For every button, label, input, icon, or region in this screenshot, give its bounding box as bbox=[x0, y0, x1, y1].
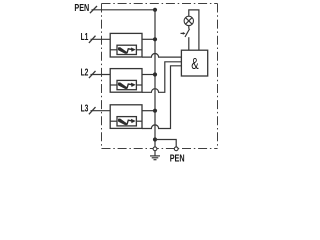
svg-text:L1: L1 bbox=[81, 32, 89, 43]
svg-text:PEN: PEN bbox=[74, 3, 89, 14]
F1 lightning arrow bbox=[118, 48, 135, 54]
wire AND output to lamp branch (left vertical) bbox=[188, 37, 190, 50]
surge arrester F3 outer box bbox=[110, 105, 142, 129]
F2 lightning arrow bbox=[118, 83, 135, 89]
terminal circle: earth bbox=[153, 147, 157, 151]
svg-text:PEN: PEN bbox=[170, 154, 185, 164]
switch S1 contact blade bbox=[185, 29, 190, 37]
wire F2 monitor line with hop over bus, riser to AND gate bbox=[142, 62, 181, 93]
terminal circle: PEN bottom bbox=[174, 147, 178, 151]
wire: vertical PEN bus bbox=[154, 10, 156, 147]
lamp bottom stub bbox=[188, 26, 190, 29]
surge arrester F2 outer box bbox=[110, 69, 142, 93]
wire F2 output to bus bbox=[142, 74, 155, 76]
wire L2 to arrester bbox=[91, 74, 111, 76]
node: bottom PEN junction dot bbox=[153, 137, 157, 141]
ground symbol bbox=[150, 151, 160, 160]
wire PEN top to bus bbox=[92, 9, 156, 11]
F1 inner element leads bbox=[110, 49, 117, 51]
AND gate U1 box bbox=[181, 50, 207, 76]
node: L1/bus junction dot bbox=[153, 37, 157, 41]
wire L3 to arrester bbox=[91, 110, 111, 112]
wire L1 to arrester bbox=[91, 38, 111, 40]
spark gap element F1 inner box bbox=[117, 45, 136, 54]
switch actuator arrow bbox=[181, 32, 184, 34]
terminal slash L3 bbox=[89, 107, 96, 114]
spark gap element F2 inner box bbox=[117, 80, 136, 89]
wire F1 output to bus bbox=[142, 38, 155, 40]
enclosure border (dash-dot device outline) bbox=[102, 4, 218, 149]
indicator lamp H1 (circle with X) bbox=[184, 16, 193, 25]
node: PEN/bus junction dot bbox=[153, 8, 157, 12]
F2 inner element leads bbox=[110, 84, 117, 86]
svg-text:L3: L3 bbox=[81, 104, 89, 115]
F3 lightning arrow bbox=[118, 119, 135, 125]
surge arrester F1 outer box bbox=[110, 33, 142, 57]
terminal slash L1 bbox=[89, 36, 96, 43]
wire F3 output to bus bbox=[142, 110, 155, 112]
terminal slash L2 bbox=[89, 71, 96, 78]
svg-text:L2: L2 bbox=[81, 67, 89, 78]
spark gap element F3 inner box bbox=[117, 117, 136, 126]
svg-text:&: & bbox=[191, 56, 199, 73]
node: L2/bus junction dot bbox=[153, 72, 157, 76]
F3 inner element leads bbox=[110, 120, 117, 122]
wire lamp loop: top bar and right leg bbox=[189, 10, 199, 50]
wire to bottom PEN terminal bbox=[155, 140, 176, 147]
wire F3 monitor line with hop over bus, riser to AND gate bbox=[142, 66, 181, 129]
wire F1 monitor line with hop over bus bbox=[142, 53, 181, 57]
terminal slash PEN top bbox=[90, 6, 97, 13]
node: L3/bus junction dot bbox=[153, 109, 157, 113]
